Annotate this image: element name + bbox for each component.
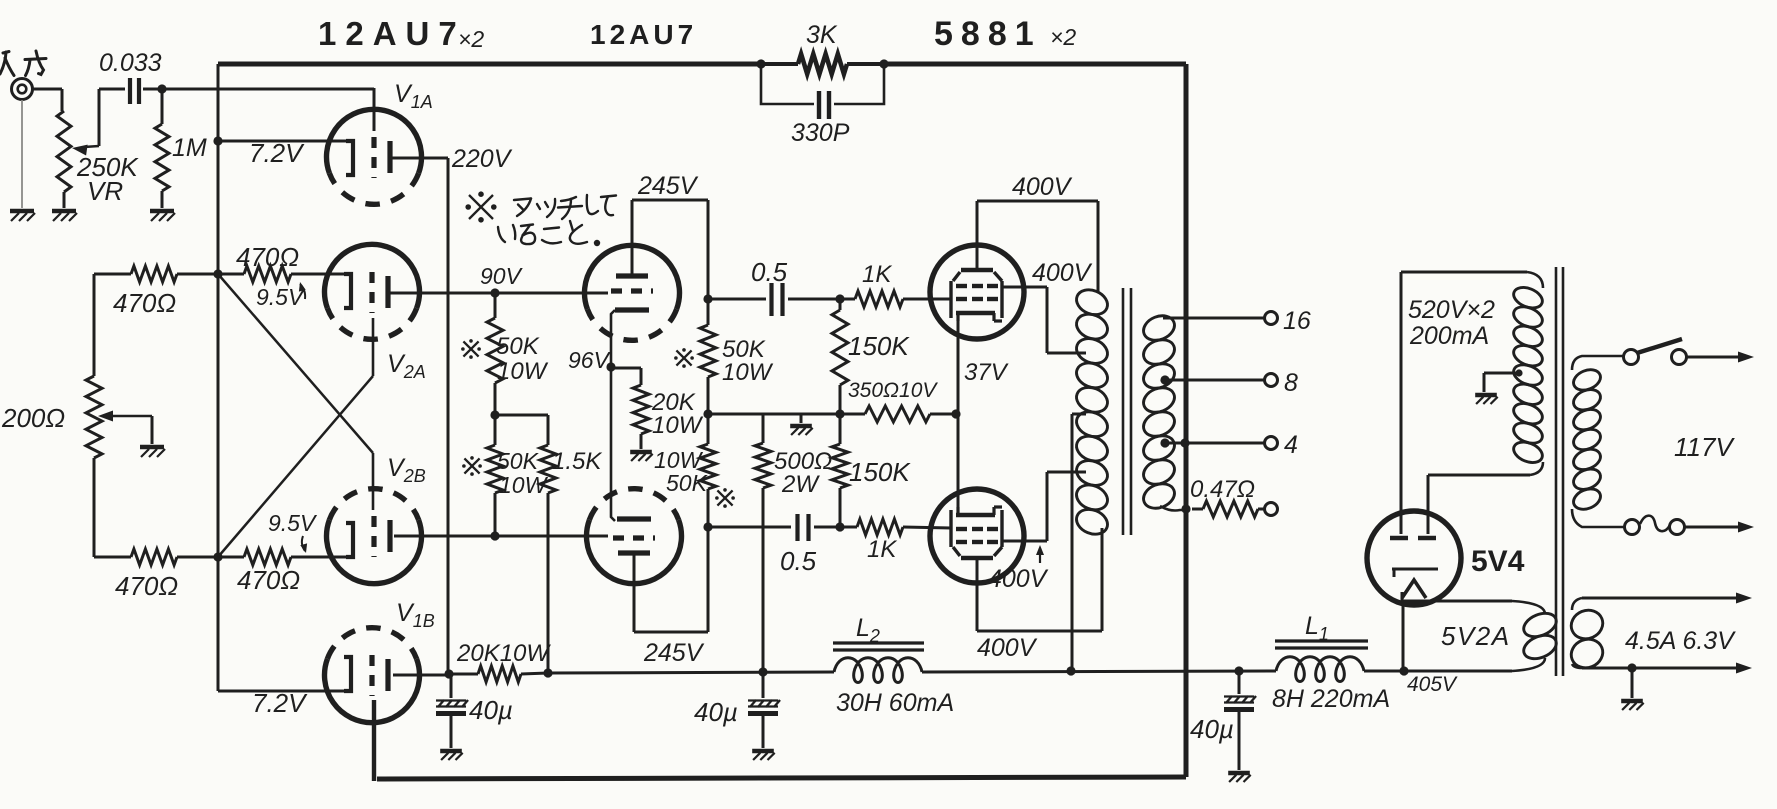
svg-text:37V: 37V [964, 359, 1009, 386]
svg-text:90V: 90V [480, 263, 524, 289]
svg-text:150K: 150K [849, 457, 911, 487]
svg-text:400V: 400V [988, 565, 1049, 593]
svg-text:9.5V: 9.5V [256, 284, 306, 310]
svg-text:50K: 50K [666, 470, 709, 496]
svg-text:10W: 10W [499, 472, 549, 498]
svg-text:0.5: 0.5 [751, 257, 788, 287]
svg-text:220V: 220V [451, 145, 513, 173]
svg-text:7.2V: 7.2V [252, 688, 308, 718]
svg-text:470Ω: 470Ω [236, 242, 299, 272]
svg-text:1M: 1M [172, 134, 207, 162]
svg-text:2W: 2W [781, 471, 820, 498]
svg-text:VR: VR [87, 176, 123, 206]
svg-text:330P: 330P [791, 119, 850, 147]
svg-text:7.2V: 7.2V [249, 138, 305, 168]
svg-text:12AU7: 12AU7 [590, 19, 697, 50]
svg-text:200mA: 200mA [1409, 322, 1489, 350]
svg-text:1K: 1K [867, 536, 897, 563]
svg-text:30H 60mA: 30H 60mA [836, 689, 954, 717]
svg-text:245V: 245V [643, 639, 705, 667]
svg-text:1K: 1K [862, 261, 892, 288]
svg-text:×2: ×2 [1050, 24, 1076, 50]
svg-text:117V: 117V [1674, 432, 1735, 462]
svg-text:5V4: 5V4 [1471, 545, 1525, 578]
svg-text:470Ω: 470Ω [113, 288, 176, 318]
svg-text:8H 220mA: 8H 220mA [1272, 685, 1390, 713]
svg-text:0.47Ω: 0.47Ω [1190, 476, 1255, 503]
svg-text:96V: 96V [568, 347, 612, 373]
svg-text:5881: 5881 [934, 15, 1042, 53]
svg-text:8: 8 [1284, 369, 1298, 397]
svg-text:4.5A 6.3V: 4.5A 6.3V [1625, 627, 1736, 655]
svg-text:16: 16 [1283, 307, 1311, 335]
svg-text:470Ω: 470Ω [115, 571, 178, 601]
svg-text:400V: 400V [1012, 173, 1073, 201]
svg-text:3K: 3K [806, 21, 838, 49]
svg-text:4: 4 [1284, 431, 1298, 459]
svg-text:10W: 10W [497, 358, 549, 385]
svg-text:5V2A: 5V2A [1441, 621, 1511, 651]
svg-text:400V: 400V [1032, 259, 1093, 287]
svg-text:40µ: 40µ [694, 697, 738, 727]
svg-text:40µ: 40µ [469, 695, 513, 725]
svg-text:200Ω: 200Ω [1, 403, 65, 433]
svg-text:9.5V: 9.5V [268, 510, 318, 536]
svg-text:50K: 50K [497, 448, 540, 474]
svg-text:150K: 150K [848, 331, 910, 361]
svg-text:400V: 400V [977, 634, 1038, 662]
svg-text:50K: 50K [496, 333, 540, 360]
svg-text:520V×2: 520V×2 [1408, 296, 1495, 324]
svg-text:350Ω10V: 350Ω10V [848, 379, 938, 402]
svg-text:40µ: 40µ [1190, 714, 1234, 744]
svg-text:12AU7: 12AU7 [318, 15, 466, 52]
svg-text:245V: 245V [637, 172, 699, 200]
svg-text:470Ω: 470Ω [237, 565, 300, 595]
svg-text:405V: 405V [1407, 673, 1458, 696]
svg-text:0.5: 0.5 [780, 546, 817, 576]
svg-text:1.5K: 1.5K [552, 448, 602, 475]
svg-text:×2: ×2 [458, 26, 484, 52]
svg-text:0.033: 0.033 [99, 49, 162, 77]
svg-text:10W: 10W [652, 412, 704, 439]
svg-text:10W: 10W [722, 359, 774, 386]
svg-text:20K10W: 20K10W [456, 640, 551, 667]
